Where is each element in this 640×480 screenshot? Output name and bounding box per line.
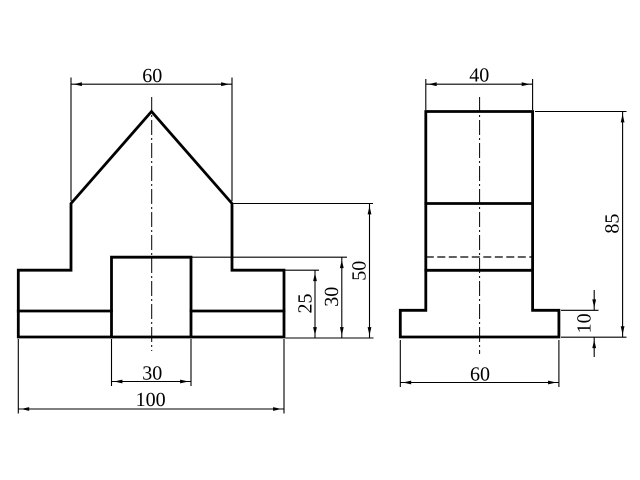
side view step edge: [426, 269, 533, 272]
dim 85: dimension line: [622, 112, 624, 338]
front view outline: [18, 112, 284, 338]
dim 40: extension lines: [426, 79, 533, 110]
svg-text:25: 25: [294, 294, 316, 314]
dim 30 bottom: dimension line: [112, 381, 192, 383]
dim 50: dimension line: [369, 204, 371, 339]
dim 10: dimension lines outside: [593, 290, 595, 357]
dim 25 arrows: [313, 273, 317, 281]
svg-text:100: 100: [136, 389, 166, 411]
dim 60 bottom arrows: [403, 381, 411, 385]
side view centerline: [479, 97, 481, 354]
dim 10 arrows: [592, 299, 596, 307]
dimension texts: [136, 65, 624, 412]
dim 60 top arrows: [74, 82, 82, 86]
dim 85 arrows: [621, 114, 625, 122]
front view base top edge: [18, 310, 284, 313]
arrowheads: [21, 82, 625, 411]
dim 100: extension lines: [18, 339, 284, 414]
dim 100: dimension line: [18, 408, 284, 410]
svg-text:30: 30: [321, 287, 343, 307]
front view centerline: [151, 97, 153, 351]
side view outline: [400, 112, 559, 338]
dim 10: extension lines: [561, 310, 627, 337]
dim 30 bottom arrows: [114, 380, 122, 384]
dim 40: dimension line: [426, 83, 533, 85]
side view shoulder edge: [426, 202, 533, 205]
dim 60 top: dimension line: [71, 83, 232, 85]
dim 85: extension line: [535, 111, 627, 113]
thin dimension/extension lines: [18, 78, 626, 414]
front view center boss: [112, 257, 192, 337]
dim 30 bottom: extension lines: [112, 339, 192, 386]
dim 30 right: extension line: [192, 256, 347, 258]
dim 50 arrows: [368, 206, 372, 214]
svg-text:60: 60: [470, 364, 490, 386]
dim 25: dimension line: [314, 270, 316, 338]
svg-text:30: 30: [142, 363, 162, 385]
dim 60 top: extension lines: [71, 78, 232, 202]
dim 25: extension line: [286, 269, 320, 271]
dim 60 bottom: extension lines: [400, 340, 559, 387]
dim 40 arrows: [428, 82, 436, 86]
svg-text:85: 85: [602, 214, 624, 234]
svg-text:60: 60: [142, 65, 162, 87]
dim 50: extension lines: [234, 204, 374, 339]
dim 100 arrows: [21, 407, 29, 411]
dim 30 right arrows: [340, 260, 344, 268]
side view hidden edge: [426, 256, 533, 258]
dim 30 right: dimension line: [341, 257, 343, 338]
svg-text:10: 10: [573, 313, 595, 333]
svg-text:50: 50: [348, 261, 370, 281]
dim 60 bottom: dimension line: [400, 382, 559, 384]
svg-text:40: 40: [469, 65, 489, 87]
